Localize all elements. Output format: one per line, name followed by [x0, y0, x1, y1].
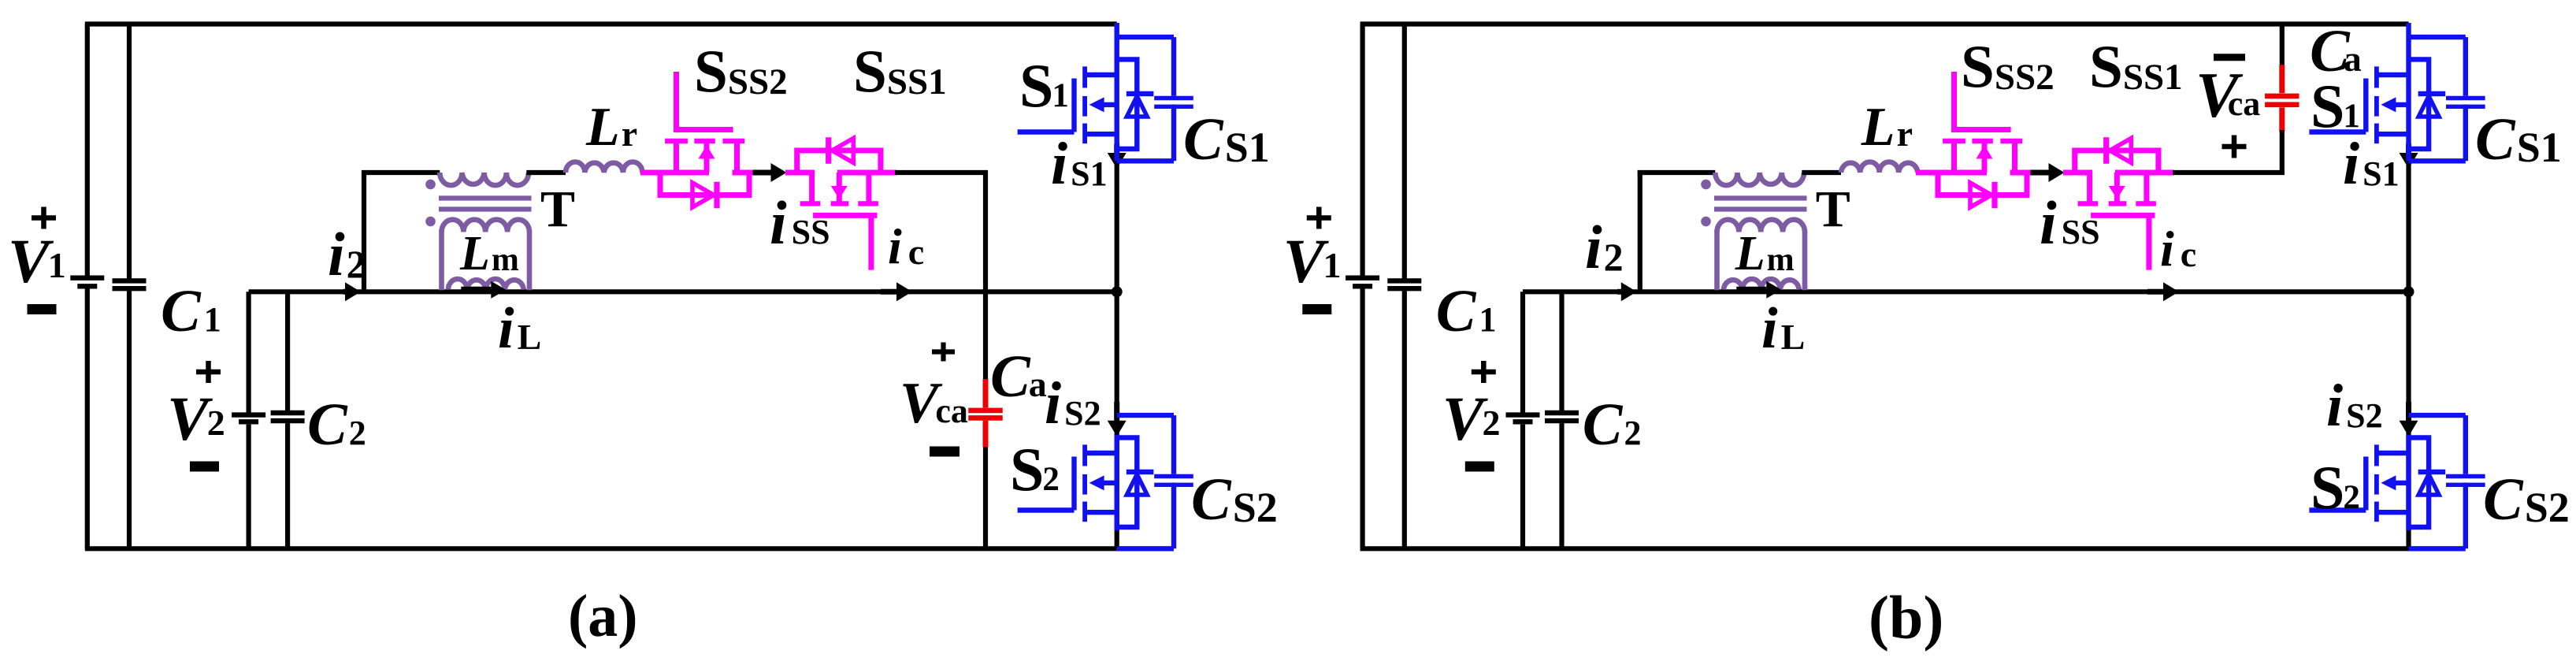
transistor S2a (body arrow)	[1089, 475, 1117, 490]
label C1	[161, 278, 221, 344]
label ic (b)	[2160, 221, 2196, 277]
arrow (current i2)	[343, 282, 361, 301]
capacitor CS2a (plates)	[1154, 477, 1193, 485]
label CS2 (b)	[2483, 466, 2570, 533]
label V2	[167, 385, 225, 454]
capacitor CS2a (branch)	[1117, 415, 1174, 548]
polarity + of V2	[196, 361, 221, 383]
arrow (current i2)	[1617, 282, 1637, 301]
label S1 switch	[1019, 51, 1069, 120]
transistor S1a (channel)	[1082, 66, 1087, 143]
transistor S1b (channel)	[2374, 66, 2379, 143]
transistor S1b (drain-source vertical)	[2406, 23, 2411, 161]
label iS1	[1051, 131, 1108, 197]
label V1 (b)	[1283, 228, 1342, 296]
transistor SS2a (gate lead)	[674, 72, 733, 130]
transformer T (core)	[1714, 199, 1807, 210]
transistor SS1a (body arrow)	[831, 173, 848, 202]
wire (Ca branch upper)	[2280, 22, 2285, 67]
transistor S1b (body arrow)	[2381, 97, 2408, 112]
arrow (current into SS1)	[2031, 163, 2065, 182]
transistor S2b (drain/source leads)	[2377, 453, 2409, 512]
wire (transformer primary riser)	[362, 170, 366, 292]
transistor S1a (gate)	[1018, 79, 1075, 132]
transistor SS2b (body diode)	[1938, 173, 2027, 208]
capacitor C1 (plates)	[1387, 280, 1421, 288]
polarity + of V1	[32, 207, 56, 229]
transistor S2b (channel)	[2374, 444, 2379, 522]
transistor S1a (body diode branch)	[1117, 59, 1154, 149]
polarity + of Vca (a)	[932, 343, 955, 362]
transformer T (primary winding)	[440, 173, 529, 185]
polarity - of V1 (b)	[1302, 304, 1331, 314]
label S2 switch	[1010, 435, 1060, 503]
capacitor CS1b (plates)	[2446, 98, 2485, 107]
transistor S1a (drain-source vertical)	[1114, 23, 1119, 161]
wire (middle bus)	[249, 289, 1117, 294]
capacitor Ca (red leads)	[2279, 65, 2285, 132]
wire (middle bus)	[1523, 289, 2409, 294]
capacitor CS2b (top lead)	[2409, 413, 2466, 418]
wire (S1 to midpoint)	[2406, 142, 2411, 292]
label i2	[328, 220, 366, 288]
label ic	[888, 218, 924, 274]
label T (b)	[1816, 180, 1850, 238]
wire (SS1 left segment)	[785, 170, 815, 176]
arrow (current iS1a)	[1108, 144, 1127, 169]
transistor S1a (drain/source leads)	[1085, 75, 1117, 134]
label Lr	[585, 97, 637, 158]
wire (SS2 source segment)	[663, 170, 710, 176]
transistor SS2a (body arrow)	[699, 143, 715, 173]
transistor SS1b (body diode)	[2075, 137, 2158, 173]
label T	[540, 180, 575, 238]
label S2 switch (b)	[2311, 453, 2360, 522]
transistor S1b (gate)	[2309, 79, 2366, 132]
wire (bottom bus)	[1360, 546, 2409, 551]
wire (SS1 output)	[2173, 170, 2285, 175]
transistor SS1a (gate)	[813, 215, 877, 269]
arrow (current iL)	[1736, 281, 1781, 299]
voltage source V1 (battery symbol)	[1346, 278, 1379, 287]
arrow (current iS2a)	[1108, 402, 1127, 437]
capacitor C1 (plates)	[113, 280, 147, 288]
voltage source V1 (leads)	[85, 24, 90, 549]
label Vca (a)	[900, 371, 968, 436]
polarity - of Vca (b)	[2214, 54, 2245, 61]
capacitor CS1b (top lead)	[2409, 35, 2466, 39]
wire (primary to Lr)	[1802, 170, 1841, 175]
label C1 (b)	[1436, 278, 1497, 344]
arrow (current iS2b)	[2400, 402, 2418, 437]
label iS2 (b)	[2326, 373, 2383, 439]
polarity + of V2 (b)	[1472, 361, 1496, 383]
transistor SS2b (body arrow)	[1977, 143, 1993, 173]
arrow (current ic)	[881, 282, 912, 301]
inductor Lm (winding top)	[1717, 220, 1806, 232]
wire (Lr to SS2)	[640, 170, 663, 176]
wire (SS1 output)	[895, 170, 988, 175]
wire (primary top)	[1638, 170, 1716, 175]
transistor SS1a (body diode)	[797, 137, 881, 173]
label C2	[307, 392, 366, 458]
capacitor CS1a (branch)	[1117, 37, 1174, 161]
capacitor C2 (plates)	[271, 413, 305, 421]
transistor S2a (drain-source vertical)	[1114, 435, 1119, 530]
wire (SS2 drain segment)	[733, 170, 755, 176]
inductor Lm (legs)	[1717, 230, 1806, 290]
transistor S2a (channel)	[1082, 444, 1087, 522]
transistor SS2b (gate lead)	[1951, 72, 2011, 130]
transistor S2a (body diode branch)	[1117, 437, 1154, 527]
label SS1 switch (b)	[2089, 32, 2183, 100]
transistor SS2a (body diode)	[660, 173, 749, 208]
wire (Ca branch lower)	[2280, 130, 2285, 175]
transistor SS1b (channel)	[2078, 201, 2156, 206]
wire (SS1 left segment)	[2063, 170, 2092, 176]
transistor SS1b (source/drain leads)	[2090, 173, 2147, 203]
wire (S1 to midpoint)	[1115, 142, 1119, 292]
capacitor C1 (leads)	[1402, 24, 1407, 549]
transistor S2a (gate)	[1018, 457, 1075, 511]
transistor S1b (drain/source leads)	[2377, 75, 2409, 134]
caption (a)	[568, 583, 638, 649]
label Lm	[459, 227, 519, 280]
node (half-bridge midpoint)	[2403, 286, 2415, 297]
capacitor CS2a (top lead)	[1117, 413, 1174, 418]
label SS2 switch	[694, 37, 788, 105]
label i2 (b)	[1585, 213, 1624, 281]
label iL	[498, 296, 541, 361]
capacitor C1 (leads)	[127, 24, 132, 549]
wire (transformer primary riser)	[1638, 170, 1642, 292]
transformer T (primary winding)	[1715, 173, 1804, 185]
label S1 switch (b)	[2311, 72, 2360, 140]
capacitor C2 (leads)	[1559, 292, 1564, 548]
voltage source V2 (battery symbol)	[232, 415, 265, 422]
polarity - of V2 (b)	[1465, 462, 1494, 472]
inductor Lr (winding)	[566, 162, 642, 173]
transistor SS1b (gate)	[2091, 215, 2155, 269]
wire (SS2 drain segment)	[2010, 170, 2033, 176]
transistor SS1a (source/drain leads)	[812, 173, 869, 203]
wire (primary to Lr)	[526, 170, 566, 175]
label Lr (b)	[1861, 97, 1913, 158]
transistor S1a (body arrow)	[1089, 97, 1117, 112]
wire (top bus)	[85, 21, 1117, 26]
wire (SS2 source segment)	[1941, 170, 1988, 176]
capacitor Ca (plates)	[2265, 96, 2299, 105]
wire (primary top)	[362, 170, 440, 175]
wire (SS1 right segment)	[837, 170, 896, 176]
wire (SS1 right segment)	[2115, 170, 2174, 176]
transformer T (polarity dot primary)	[1701, 180, 1711, 190]
voltage source V2 (leads)	[247, 292, 251, 548]
transistor SS2a (source/drain leads)	[677, 141, 737, 173]
label CS1	[1183, 106, 1270, 173]
transformer T (polarity dot primary)	[425, 180, 436, 190]
transistor S2b (body arrow)	[2381, 475, 2408, 490]
capacitor Ca (plates)	[968, 411, 1002, 418]
transistor S2b (body diode branch)	[2409, 437, 2446, 527]
transformer T (polarity dot secondary)	[1701, 217, 1711, 227]
label Vca (b)	[2196, 59, 2260, 131]
label SS2 switch (b)	[1961, 32, 2054, 100]
label iSS (b)	[2040, 188, 2100, 257]
label V1	[8, 228, 66, 296]
transistor S2a (drain/source leads)	[1085, 453, 1117, 512]
polarity - of V2	[190, 462, 219, 472]
voltage source V1 (leads)	[1360, 24, 1364, 549]
inductor Lm (winding top)	[442, 220, 530, 232]
label iS2	[1045, 370, 1101, 437]
inductor Lm (winding bottom)	[448, 279, 524, 290]
capacitor CS2b (branch)	[2409, 415, 2466, 548]
label Ca (b)	[2310, 18, 2362, 84]
capacitor CS2b (plates)	[2446, 477, 2485, 485]
label CS2	[1191, 466, 1278, 533]
polarity + of V1 (b)	[1307, 207, 1331, 229]
transistor SS2b (channel)	[1943, 139, 2022, 143]
transformer T (core)	[439, 199, 532, 210]
polarity - of Vca (a)	[930, 447, 960, 457]
transistor SS1b (body arrow)	[2109, 173, 2125, 202]
wire (midpoint to S2)	[2406, 292, 2411, 548]
arrow (current iL)	[461, 281, 506, 299]
polarity + of Vca (b)	[2222, 136, 2247, 158]
wire (bottom bus)	[85, 546, 1117, 551]
transistor S2b (gate)	[2309, 457, 2366, 511]
transistor SS2a (channel)	[665, 139, 744, 143]
transistor SS1a (channel)	[800, 201, 878, 206]
label iL (b)	[1761, 296, 1805, 361]
polarity - of V1	[28, 304, 57, 314]
label Ca (a)	[990, 344, 1047, 410]
inductor Lm (winding bottom)	[1724, 279, 1799, 290]
wire (Ca branch lower)	[983, 448, 988, 549]
capacitor Ca (red leads)	[983, 379, 989, 448]
capacitor CS1a (plates)	[1154, 98, 1193, 107]
capacitor C2 (leads)	[285, 292, 290, 548]
label C2 (b)	[1583, 392, 1642, 458]
svg-text:T: T	[1816, 180, 1850, 238]
voltage source V2 (leads)	[1520, 292, 1525, 548]
svg-text:(a): (a)	[568, 583, 638, 649]
label iS1 (b)	[2343, 131, 2400, 197]
caption (b)	[1869, 583, 1943, 652]
label iSS	[770, 188, 830, 257]
wire (Ca branch upper)	[983, 170, 988, 379]
label Lm (b)	[1735, 227, 1795, 280]
wire (top bus)	[1360, 21, 2409, 26]
svg-text:(b): (b)	[1869, 583, 1943, 652]
inductor Lm (legs)	[442, 230, 530, 290]
voltage source V2 (battery symbol)	[1506, 415, 1540, 422]
transistor S2b (drain-source vertical)	[2406, 435, 2411, 530]
capacitor CS1a (top lead)	[1117, 35, 1174, 39]
node (half-bridge midpoint)	[1112, 286, 1123, 297]
transistor SS2b (source/drain leads)	[1954, 141, 2015, 173]
transformer T (polarity dot secondary)	[425, 217, 436, 227]
label SS1 switch	[853, 37, 947, 105]
capacitor CS1b (branch)	[2409, 37, 2466, 161]
wire (Lr to SS2)	[1916, 170, 1941, 176]
label V2 (b)	[1442, 385, 1501, 454]
svg-text:T: T	[540, 180, 575, 238]
arrow (current into SS1)	[753, 163, 787, 182]
voltage source V1 (battery symbol)	[70, 278, 104, 287]
arrow (current ic)	[2147, 282, 2179, 301]
capacitor C2 (plates)	[1545, 413, 1579, 421]
label CS1 (b)	[2475, 106, 2562, 173]
arrow (current iS1b)	[2400, 144, 2418, 169]
transistor S1b (body diode branch)	[2409, 59, 2446, 149]
inductor Lr (winding)	[1841, 162, 1917, 173]
wire (midpoint to S2)	[1115, 292, 1119, 548]
